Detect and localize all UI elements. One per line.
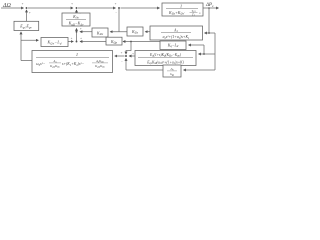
svg-text:+: + <box>21 2 23 6</box>
svg-text:1: 1 <box>180 3 182 8</box>
svg-text:−: − <box>79 11 81 15</box>
svg-text:+: + <box>120 51 122 55</box>
svg-text:KΩs: KΩs <box>131 29 139 35</box>
svg-text:ω0s²−: ω0s²− <box>36 62 46 67</box>
svg-text:KΔv: KΔv <box>72 14 79 20</box>
svg-text:+: + <box>71 2 73 6</box>
svg-text:kΩ: kΩ <box>170 72 174 77</box>
svg-text:Kq−Ld: Kq−Ld <box>167 42 179 48</box>
svg-text:+: + <box>70 37 72 41</box>
svg-text:KqΩKΩv: KqΩKΩv <box>49 64 61 69</box>
svg-text:+: + <box>132 52 134 56</box>
svg-text:ΔPe: ΔPe <box>205 3 214 8</box>
svg-text:KΩv: KΩv <box>96 30 104 36</box>
svg-text:AqKΩv: AqKΩv <box>95 59 105 64</box>
svg-text:+: + <box>80 37 82 41</box>
svg-text:a2s²+(1+a1)s+K1: a2s²+(1+a1)s+K1 <box>163 35 190 40</box>
svg-text:KΩp: KΩp <box>110 40 118 45</box>
svg-text:A1: A1 <box>173 28 178 33</box>
svg-text:+: + <box>29 11 31 15</box>
svg-text:Eq(1+s)Kq(KΩv−Kqv): Eq(1+s)Kq(KΩv−Kqv) <box>149 53 182 58</box>
svg-text:+: + <box>80 27 82 31</box>
svg-text:KqΩKΩv: KqΩKΩv <box>94 64 106 69</box>
svg-text:−: − <box>121 60 123 64</box>
svg-text:1: 1 <box>76 52 78 57</box>
svg-text:+: + <box>114 2 116 6</box>
svg-text:KqΩ−KΔv: KqΩ−KΔv <box>68 21 84 27</box>
svg-text:EqvKΩ(ω0s²+(1+a1)s+K): EqvKΩ(ω0s²+(1+a1)s+K) <box>146 60 184 65</box>
svg-text:s+(K1+K2)s²−: s+(K1+K2)s²− <box>62 62 85 67</box>
svg-text:ΔΩ: ΔΩ <box>2 3 12 9</box>
svg-text:−: − <box>115 10 117 14</box>
svg-text:KΩs+KΩv·: KΩs+KΩv· <box>168 10 185 16</box>
svg-text:Eqs·Eqv: Eqs·Eqv <box>19 24 32 30</box>
svg-text:KΩv−Ld: KΩv−Ld <box>46 40 61 46</box>
